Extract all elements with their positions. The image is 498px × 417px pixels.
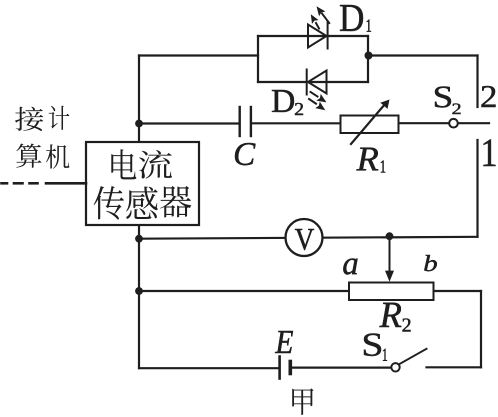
wire: rail to R2 left end xyxy=(139,290,349,292)
wire: R1 to switch S2 xyxy=(399,122,450,124)
switch S1 lever xyxy=(399,349,426,364)
label b xyxy=(424,255,437,271)
battery E long plate xyxy=(278,357,281,379)
label C xyxy=(235,143,256,165)
LED D2 emission arrows (point down-right) xyxy=(309,92,327,110)
wire: S2 throw lever xyxy=(458,122,489,124)
wire: bottom from rail to battery xyxy=(139,367,278,369)
LED D2 (points left) xyxy=(307,70,327,95)
label D2 xyxy=(272,90,294,112)
wire: capacitor to R1 xyxy=(252,122,341,124)
wire: LED group left vertical xyxy=(257,36,259,82)
wire: terminal 1 vertical xyxy=(476,140,478,237)
label D2 subscript 2 xyxy=(295,103,303,115)
wire: left rail top segment xyxy=(138,56,140,143)
dashed lead to computer xyxy=(2,182,87,185)
potentiometer R2 wiper arrow xyxy=(389,236,391,272)
wire: LED output to top-right corner xyxy=(368,54,478,56)
label: 感 xyxy=(126,187,157,219)
node: LED output junction xyxy=(365,52,373,60)
wire: R2 right end to corner xyxy=(434,290,482,292)
label: 接 (connect) xyxy=(15,107,43,131)
switch S2 pivot xyxy=(449,119,458,128)
label: 机 xyxy=(46,144,69,168)
wire: bottom-right to S1 lever xyxy=(427,366,482,368)
label S1 subscript 1 xyxy=(383,349,387,361)
wire: LED bottom branch xyxy=(258,81,368,83)
label: 传 xyxy=(94,186,124,220)
label: 器 xyxy=(160,186,191,217)
label S2 subscript 2 xyxy=(452,104,460,114)
label D1 xyxy=(340,5,363,31)
wire: LED group right vertical xyxy=(367,36,369,82)
wire: right drop to terminal 2 xyxy=(476,56,478,108)
wire: voltmeter line (rail to terminal 1) xyxy=(139,237,478,239)
voltmeter V xyxy=(286,219,323,256)
node: wiper junction on voltmeter line xyxy=(386,232,394,240)
label: 电 (current sensor text) xyxy=(111,149,136,179)
LED D1 emission arrows (point up-left) xyxy=(311,6,329,28)
label: 流 xyxy=(139,150,172,179)
label R1 subscript 1 xyxy=(381,160,385,172)
label: 计 xyxy=(49,106,70,130)
label S1 xyxy=(364,333,381,355)
battery E short plate xyxy=(288,362,292,374)
capacitor C plates xyxy=(240,107,251,136)
wire: LED top branch xyxy=(258,35,368,37)
label: 甲 (figure A) xyxy=(292,388,313,415)
label: 算 xyxy=(16,144,41,168)
wire: left rail lower segment xyxy=(138,225,140,368)
node: rail/capacitor junction xyxy=(135,120,143,128)
rheostat R1 arrow xyxy=(351,104,386,145)
switch S1 pivot xyxy=(391,363,399,371)
label a xyxy=(343,259,357,275)
wire: battery to S1 pivot xyxy=(292,367,391,369)
label R2 xyxy=(379,303,401,327)
wire: capacitor branch from rail xyxy=(139,122,239,124)
wire: right rail down to S1 xyxy=(480,291,482,367)
label R2 subscript 2 xyxy=(402,318,410,331)
rheostat R1 body xyxy=(341,116,399,134)
potentiometer R2 body xyxy=(349,283,434,301)
label terminal 1 xyxy=(483,140,495,166)
sensor box (current sensor) xyxy=(86,142,199,225)
wire: top-left horizontal to LED group xyxy=(139,54,258,56)
label D1 subscript 1 xyxy=(367,20,371,32)
label R1 xyxy=(356,148,378,171)
label terminal 2 xyxy=(482,86,496,107)
label E xyxy=(275,331,293,353)
node: rail/voltmeter junction xyxy=(135,235,143,243)
node: rail/R2 junction xyxy=(135,287,143,295)
label S2 xyxy=(435,86,451,107)
LED D1 (points right) xyxy=(308,22,328,49)
label V (voltmeter) xyxy=(295,229,314,250)
